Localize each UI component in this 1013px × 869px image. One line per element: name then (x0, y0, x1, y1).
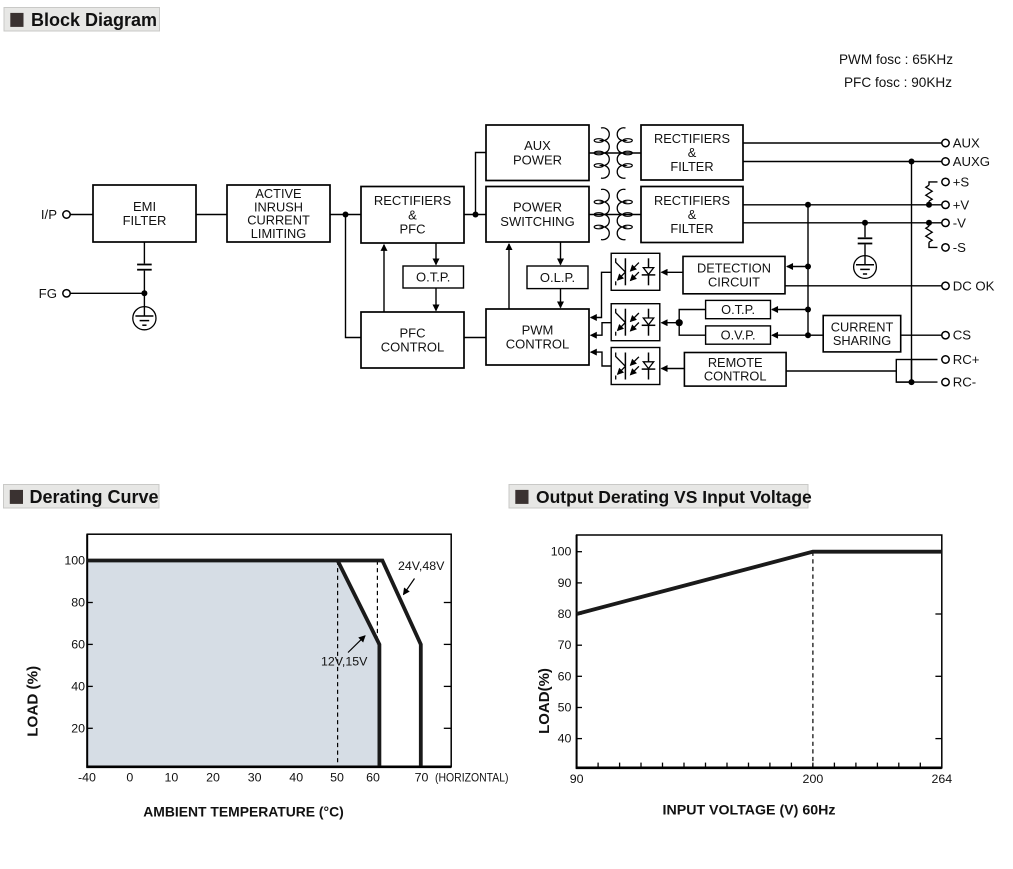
terminal DC OK (942, 278, 995, 293)
x-axis labels (input voltage) (570, 772, 953, 786)
svg-text:CONTROL: CONTROL (506, 337, 570, 352)
svg-text:DETECTION: DETECTION (697, 261, 771, 276)
svg-text:PFC: PFC (400, 222, 426, 237)
left axis tick marks (87, 603, 93, 729)
svg-text:-40: -40 (78, 771, 96, 785)
svg-text:INPUT VOLTAGE (V) 60Hz: INPUT VOLTAGE (V) 60Hz (663, 803, 836, 819)
wire protection node to opto U2 (662, 322, 680, 324)
section header: Output Derating VS Input Voltage (509, 485, 812, 509)
wire -V line to sense resistor (928, 223, 930, 226)
resistor +S sense (926, 185, 932, 201)
wire O.T.P. to protection node (679, 310, 705, 323)
svg-text:O.T.P.: O.T.P. (416, 270, 450, 285)
svg-text:Output Derating VS Input Volta: Output Derating VS Input Voltage (536, 487, 812, 507)
node RC+/RC- connection box (896, 360, 911, 383)
x-axis tick marks (input voltage) (598, 763, 920, 768)
dashed guide line at 60 degrees (376, 561, 378, 645)
svg-text:70: 70 (415, 771, 429, 785)
svg-text:LOAD(%): LOAD(%) (536, 668, 553, 734)
wire sense resistor to +V line (928, 201, 930, 205)
svg-text:100: 100 (64, 554, 85, 568)
svg-text:SHARING: SHARING (833, 333, 891, 348)
block POWER SWITCHING (486, 187, 589, 243)
wire PFC CONTROL to PWM CONTROL (464, 337, 486, 339)
block O.T.P. (output over temperature) (706, 300, 771, 318)
y axis line (derating curve) (86, 534, 88, 768)
wire RECTIFIERS &amp; PFC to POWER SWITCHING (464, 214, 486, 216)
curve load vs input voltage (577, 552, 942, 614)
svg-text:AUX: AUX (953, 136, 980, 151)
junction node sense bus at OVP (805, 332, 811, 338)
wire O.L.P. down to PWM CONTROL (560, 289, 562, 308)
svg-text:AUX: AUX (524, 138, 551, 153)
wire junction down to PFC CONTROL (346, 215, 362, 338)
x-axis labels (temperature) (78, 771, 428, 785)
wire RC- terminal (896, 381, 937, 383)
section header: Block Diagram (4, 8, 160, 32)
svg-text:0: 0 (126, 771, 133, 785)
earth ground symbol (output) (854, 256, 877, 279)
junction node FG (141, 290, 147, 296)
shaded operating region (88, 561, 379, 767)
y-axis tick marks (load %) (577, 552, 582, 739)
annotation arrow to 12V,15V curve (348, 636, 365, 653)
svg-text:CURRENT: CURRENT (831, 319, 894, 334)
svg-text:264: 264 (931, 772, 952, 786)
wire sense bus to CURRENT SHARING (808, 334, 823, 336)
x axis line (derating curve) (86, 765, 451, 768)
wire EMI FILTER down to Y-capacitor (143, 242, 145, 264)
block DETECTION CIRCUIT (683, 256, 785, 293)
junction node after inrush block (343, 212, 349, 218)
svg-text:+V: +V (953, 197, 970, 212)
svg-text:+S: +S (953, 174, 970, 189)
svg-text:PFC fosc : 90KHz: PFC fosc : 90KHz (844, 75, 952, 90)
svg-text:I/P: I/P (41, 207, 57, 222)
wire sense bus to DETECTION CIRCUIT (787, 266, 808, 268)
opto-coupler U2 (protection feedback) (611, 304, 660, 341)
wire main rectifier to -V terminal (743, 222, 942, 224)
wire EMI FILTER to ACTIVE INRUSH (196, 214, 227, 216)
svg-text:RECTIFIERS: RECTIFIERS (654, 131, 730, 146)
capacitor output Y-cap (858, 238, 873, 243)
wire O.T.P. down to PFC CONTROL (435, 288, 437, 311)
wire RECTIFIERS &amp; PFC down to O.T.P. (435, 243, 437, 265)
svg-text:80: 80 (71, 596, 85, 610)
svg-text:(HORIZONTAL): (HORIZONTAL) (435, 771, 509, 785)
svg-text:CONTROL: CONTROL (704, 369, 767, 384)
opto-coupler U1 (DC OK feedback) (611, 253, 660, 290)
svg-text:CS: CS (953, 328, 972, 343)
svg-text:60: 60 (558, 669, 572, 683)
svg-text:RECTIFIERS: RECTIFIERS (374, 193, 452, 208)
terminal +S (942, 174, 970, 189)
wire opto U3 to PWM CONTROL (591, 352, 611, 366)
block PWM CONTROL (486, 309, 589, 365)
junction node bus to aux power (473, 212, 479, 218)
svg-text:50: 50 (330, 771, 344, 785)
block CURRENT SHARING (823, 316, 901, 352)
chart border (input voltage derating) (577, 535, 942, 768)
block REMOTE CONTROL (684, 353, 786, 387)
wire AUXG bus down to RC- node (911, 162, 913, 383)
svg-text:10: 10 (165, 771, 179, 785)
block RECTIFIERS &amp; FILTER (main output) (641, 187, 743, 243)
terminal AUXG (942, 154, 990, 169)
terminal RC- (942, 375, 976, 390)
wire aux rectifier to AUXG terminal (743, 161, 942, 163)
svg-text:AMBIENT TEMPERATURE (°C): AMBIENT TEMPERATURE (°C) (143, 804, 344, 820)
junction node -V at resistor (926, 220, 932, 226)
wire O.V.P. to protection node (679, 323, 705, 336)
block EMI FILTER (93, 185, 196, 242)
right axis tick marks (444, 603, 451, 729)
annotation arrow to 24V,48V curve (404, 579, 415, 595)
wire CURRENT SHARING to CS terminal (901, 334, 942, 336)
svg-text:40: 40 (558, 732, 572, 746)
right border tick marks (935, 614, 941, 739)
wire DETECTION CIRCUIT to DC OK terminal (785, 285, 942, 287)
wire opto U1 to PWM CONTROL (591, 272, 611, 317)
wire I/P to EMI FILTER (71, 214, 94, 216)
svg-text:AUXG: AUXG (953, 154, 990, 169)
svg-text:EMI: EMI (133, 199, 156, 214)
junction node AUXG bus (909, 159, 915, 165)
svg-text:20: 20 (71, 721, 85, 735)
wire +V sense bus down (807, 205, 809, 335)
svg-text:20: 20 (206, 771, 220, 785)
wire ACTIVE INRUSH to RECTIFIERS &amp; PFC (330, 214, 361, 216)
wire POWER SWITCHING down to O.L.P. (560, 242, 562, 265)
svg-text:-S: -S (953, 240, 966, 255)
wire -V to output capacitor (864, 223, 866, 238)
y-axis labels (load %) right chart (551, 545, 572, 746)
svg-text:40: 40 (289, 771, 303, 785)
junction node +V sense bus (805, 202, 811, 208)
chart border (derating curve) (87, 534, 451, 767)
svg-text:RC-: RC- (953, 375, 976, 390)
svg-text:O.V.P.: O.V.P. (721, 328, 756, 343)
svg-text:CIRCUIT: CIRCUIT (708, 275, 760, 290)
wire opto U2 to PWM CONTROL (591, 323, 611, 336)
svg-text:RC+: RC+ (953, 352, 980, 367)
y axis line (input voltage derating) (576, 535, 578, 769)
terminal CS (942, 328, 971, 343)
svg-text:SWITCHING: SWITCHING (500, 214, 574, 229)
junction node sense bus at detection (805, 264, 811, 270)
terminal I/P (41, 207, 70, 222)
wire sense resistor to -S terminal (929, 242, 938, 247)
wire REMOTE CONTROL to RC network (786, 370, 896, 372)
wire sense bus to O.T.P. (772, 309, 808, 311)
curve 24V,48V models (87, 561, 421, 766)
block ACTIVE INRUSH CURRENT LIMITING (227, 185, 330, 242)
svg-text:DC OK: DC OK (953, 278, 995, 293)
wire sense bus to O.V.P. (772, 334, 808, 336)
wire capacitor to output earth (864, 244, 866, 255)
junction node protection signals (676, 319, 683, 326)
svg-text:Derating Curve: Derating Curve (30, 487, 159, 507)
svg-text:&: & (408, 207, 417, 222)
svg-text:70: 70 (558, 638, 572, 652)
dashed guide line at 50 degrees (337, 561, 339, 767)
wire Y-capacitor to FG node (143, 271, 145, 294)
terminal FG (39, 286, 71, 301)
wire DETECTION CIRCUIT to opto coupler U1 (662, 271, 684, 273)
svg-text:FILTER: FILTER (670, 159, 713, 174)
section header: Derating Curve (4, 485, 160, 509)
svg-text:90: 90 (558, 576, 572, 590)
dashed guide line at 200V (812, 552, 814, 768)
block O.T.P. (PFC over temperature) (403, 266, 464, 288)
svg-text:PFC: PFC (400, 325, 426, 340)
wire REMOTE CONTROL to opto U3 (662, 368, 685, 370)
svg-text:CONTROL: CONTROL (381, 340, 445, 355)
resistor -S sense (926, 226, 932, 242)
svg-text:100: 100 (551, 545, 572, 559)
wire junction up to AUX POWER (476, 153, 487, 215)
junction node sense bus at OTP (805, 307, 811, 313)
chart plot area background (derating curve) (87, 534, 451, 767)
block O.L.P. (over load protection) (527, 266, 588, 289)
wire +S terminal to sense resistor (929, 182, 938, 185)
curve 12V,15V models (338, 561, 380, 766)
svg-text:FILTER: FILTER (670, 221, 713, 236)
block PFC CONTROL (361, 312, 464, 368)
svg-text:PWM: PWM (522, 322, 554, 337)
svg-text:40: 40 (71, 679, 85, 693)
terminal +V (942, 197, 970, 212)
wire POWER SWITCHING to main transformer (589, 214, 641, 216)
svg-text:12V,15V: 12V,15V (321, 655, 368, 669)
svg-text:30: 30 (248, 771, 262, 785)
wire AUX POWER to aux transformer (589, 152, 641, 154)
junction node RC- and AUXG bus (909, 379, 915, 385)
terminal RC+ (942, 352, 980, 367)
svg-text:&: & (688, 207, 697, 222)
block RECTIFIERS &amp; FILTER (aux output) (641, 125, 743, 180)
x axis line (input voltage derating) (576, 766, 942, 769)
junction node +V at resistor (926, 202, 932, 208)
terminal -S (942, 240, 966, 255)
wire main rectifier to +V terminal (743, 204, 942, 206)
wire FG to ground node (71, 292, 145, 294)
svg-text:24V,48V: 24V,48V (398, 559, 445, 573)
svg-text:60: 60 (71, 637, 85, 651)
svg-text:200: 200 (803, 772, 824, 786)
junction node -V at capacitor (862, 220, 868, 226)
block O.V.P. (over voltage protection) (706, 326, 771, 344)
svg-text:PWM fosc : 65KHz: PWM fosc : 65KHz (839, 52, 953, 67)
svg-text:90: 90 (570, 772, 584, 786)
svg-text:LIMITING: LIMITING (251, 226, 306, 241)
wire RC+ terminal (912, 359, 938, 361)
transformer T1 main (594, 189, 632, 240)
wire aux rectifier to AUX terminal (743, 142, 942, 144)
svg-text:80: 80 (558, 607, 572, 621)
terminal -V (942, 215, 966, 230)
svg-text:60: 60 (366, 771, 380, 785)
svg-text:50: 50 (558, 701, 572, 715)
opto-coupler U3 (remote on/off) (611, 348, 660, 385)
svg-text:REMOTE: REMOTE (708, 355, 763, 370)
svg-text:-V: -V (953, 215, 966, 230)
y-axis labels (load %) (64, 554, 85, 736)
svg-text:O.T.P.: O.T.P. (721, 302, 755, 317)
capacitor Y-cap on EMI ground (137, 265, 152, 270)
block RECTIFIERS &amp; PFC (361, 187, 464, 244)
terminal AUX (942, 136, 980, 151)
wire PWM CONTROL up to POWER SWITCHING (508, 244, 510, 309)
svg-text:&: & (688, 145, 697, 160)
block AUX POWER (486, 125, 589, 181)
wire PFC CONTROL up to RECTIFIERS &amp; PFC (383, 245, 385, 312)
svg-text:O.L.P.: O.L.P. (540, 270, 575, 285)
transformer T2 aux (594, 128, 632, 179)
svg-text:FILTER: FILTER (123, 213, 167, 228)
svg-text:FG: FG (39, 286, 57, 301)
svg-text:POWER: POWER (513, 200, 562, 215)
svg-text:Block Diagram: Block Diagram (31, 10, 157, 30)
svg-text:LOAD (%): LOAD (%) (25, 666, 42, 737)
wire FG node to earth (143, 293, 145, 306)
earth ground symbol (input) (133, 307, 156, 330)
svg-text:RECTIFIERS: RECTIFIERS (654, 193, 730, 208)
svg-text:POWER: POWER (513, 152, 562, 167)
